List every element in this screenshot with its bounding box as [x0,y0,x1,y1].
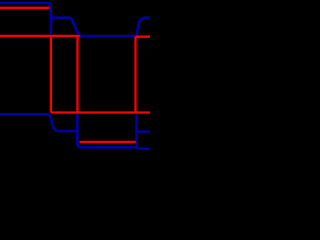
cut line: left vertical x=50.9 with corner into bottom long horizontal y=112.5 [51,35,151,113]
crease line: lower horizontal y=131 [57,130,79,133]
crease line: left shoulder horizontal y=17.6 with diagonal down to mid line [52,18,81,36]
cut line: left long horizontal y=35.9 with corner down mid vertical x=77.6 [0,35,80,112]
crease line: bottom long horizontal y=147.5 [80,146,138,149]
crease line: S-curve from lower-left line down to y=131 [49,114,57,130]
cut line: right horizontal y=36.7 with corner down right vertical x=135.5 [136,36,152,112]
cut line: bottom horizontal y=141.9 [79,141,135,143]
crease line: right diagonal rising to top-right shoulder y=17.5 [136,18,151,36]
crease line: bottom-right horizontal y=131.6 [138,130,152,133]
crease line: top-left horizontal with rounded corner into vertical [0,3,51,35]
crease line: lower-left horizontal y=114.2 [0,113,49,116]
crease line: bottom-right vertical x=136.5 [137,114,152,149]
cut line: top-left horizontal y=7.8 [0,7,50,9]
crease line: bottom-left vertical x=77.3 curving into bottom line [77,114,81,148]
crease line: middle long horizontal y=36.1 [79,35,137,38]
